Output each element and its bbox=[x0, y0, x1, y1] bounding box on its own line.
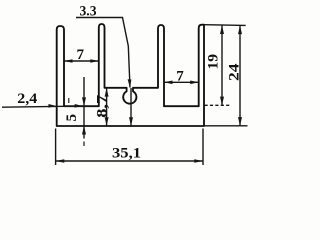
8,7 left top arrow (up) bbox=[105, 88, 109, 97]
24 bottom (down) bbox=[238, 117, 242, 126]
35,1 dim line bbox=[56, 160, 203, 162]
5 top arrow (down, tip at base top) bbox=[82, 97, 86, 106]
ext base bottom to right bbox=[204, 125, 248, 127]
left 7 arrows bbox=[64, 59, 73, 63]
35,1 ext lines bbox=[55, 129, 57, 166]
8,7 left dim line bbox=[106, 88, 108, 126]
right 7 arrows bbox=[164, 81, 173, 85]
35,1 left arrow bbox=[56, 159, 65, 163]
2,4 leader bbox=[2, 106, 83, 107]
svg-text:19: 19 bbox=[206, 54, 222, 70]
2,4 arrows (right) bbox=[48, 104, 57, 108]
svg-text:7: 7 bbox=[176, 69, 184, 85]
svg-text:5: 5 bbox=[64, 114, 80, 122]
5 bottom arrow (up, tip at base bottom) bbox=[82, 126, 86, 135]
svg-text:35,1: 35,1 bbox=[112, 146, 141, 162]
top extension line bbox=[204, 24, 246, 27]
19 top (up) bbox=[220, 25, 224, 34]
dim line 24 bbox=[239, 25, 241, 125]
svg-text:2,4: 2,4 bbox=[17, 91, 38, 107]
8,7 left bottom arrow (down) bbox=[105, 117, 109, 126]
svg-text:7: 7 bbox=[77, 47, 85, 63]
right 7 dim line bbox=[164, 81, 199, 83]
8,7 right bottom arrow (down) bbox=[129, 117, 133, 126]
19 bottom (down) bbox=[220, 97, 224, 106]
3.3 leader arrow (down) bbox=[128, 79, 132, 88]
dim line 19 bbox=[221, 25, 223, 105]
small tick above 5 text bbox=[68, 98, 70, 103]
dashed ext base top bbox=[205, 104, 230, 106]
24 top (up) bbox=[238, 25, 242, 34]
svg-text:24: 24 bbox=[227, 63, 243, 81]
8,7 right dim line bbox=[130, 88, 132, 126]
left 7 dim line bbox=[64, 60, 99, 62]
5 dim line bbox=[83, 77, 85, 139]
35,1 right arrow bbox=[194, 159, 203, 163]
profile outline bbox=[57, 24, 204, 126]
svg-text:8,7: 8,7 bbox=[94, 94, 110, 118]
svg-text:3.3: 3.3 bbox=[80, 3, 97, 19]
3.3 underline + leader bbox=[76, 18, 130, 88]
